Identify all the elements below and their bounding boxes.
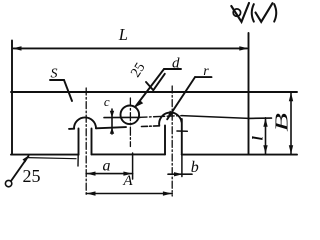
dimension b [168,155,192,177]
surface mark 25 bottom-left with circle [5,155,29,186]
left slot left-side extension below edge [77,155,79,166]
dimension a [86,153,132,179]
hidden step dash right of right slot [177,130,187,132]
parentheses with check (other surfaces) [252,4,254,21]
hole circle d [121,106,140,125]
step edge right of right slot + l extension [182,116,249,119]
dimension B [289,92,293,154]
dimension c [110,109,114,134]
right slot centerline [171,86,173,196]
svg-text:25: 25 [128,60,148,80]
svg-text:L: L [118,25,128,44]
left keyhole slot: right side [91,129,93,155]
svg-text:25: 25 [23,166,41,186]
svg-text:d: d [172,56,180,72]
left edge of plate + L extension [11,41,13,155]
roughness symbol top-right (circle-in-check) [231,3,249,22]
bottom edge of plate (left segment) [11,154,79,156]
check inside parens [256,3,273,22]
bottom edge (right segment) + B,l extension [182,154,297,156]
slot-base step line between slots (left part) [96,127,126,128]
dimension L line [12,46,248,50]
roughness check mark 25 on leader [146,74,165,90]
leader for d with roughness 25 [135,69,181,107]
slot-base step line left of left arc [69,128,74,130]
slot-base step line between slots (right part, dashed) [142,125,160,128]
svg-text:A: A [122,173,133,189]
right keyhole slot: right side [181,119,183,155]
leader for r [167,77,212,120]
ghost stroke under bottom edge [28,158,76,159]
right keyhole slot: left side [164,126,166,155]
left keyhole slot: arc r [74,117,96,128]
dimension A [86,191,172,195]
svg-text:c: c [104,94,110,109]
svg-text:l: l [251,135,267,140]
dimension l [263,118,267,154]
svg-text:a: a [103,158,111,175]
right edge of plate + L extension [248,33,250,155]
svg-text:b: b [191,159,199,176]
left slot centerline [85,88,87,196]
svg-text:B: B [273,113,292,132]
left keyhole slot: left side [78,129,80,155]
hole horizontal centerline / step edge to right [104,116,140,118]
right keyhole slot: arc r [159,112,181,125]
S leader [50,80,72,101]
hole vertical centerline [129,98,131,147]
closing parenthesis [274,4,276,21]
bottom edge (middle segment) [92,153,166,155]
svg-text:r: r [203,64,209,79]
top edge of plate + B extension [11,91,297,93]
